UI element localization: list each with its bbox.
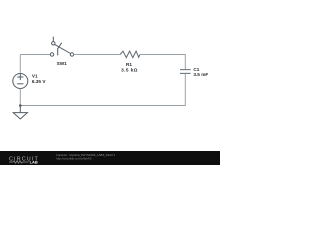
- resistor R1: [120, 51, 140, 58]
- CircuitLab logo: [9, 156, 39, 164]
- wire resistor to top-right corner: [140, 55, 185, 70]
- svg-text:R1: R1: [126, 62, 132, 67]
- svg-text:http://circuitlab.com/c/6ae42/: http://circuitlab.com/c/6ae42/: [56, 157, 92, 161]
- wire V1 bottom lead: [19, 89, 21, 106]
- watermark bar: [0, 151, 220, 165]
- wire V1 top lead: [19, 55, 21, 74]
- voltage source V1: [13, 74, 28, 89]
- svg-text:SW1: SW1: [57, 61, 68, 66]
- svg-text:3.5 kΩ: 3.5 kΩ: [121, 67, 138, 72]
- node junction: [19, 104, 22, 107]
- svg-text:3.5 mF: 3.5 mF: [193, 72, 208, 77]
- ground: [13, 106, 27, 120]
- svg-text:6.35 V: 6.35 V: [32, 79, 46, 84]
- wire bottom: [20, 74, 185, 106]
- wire switch to resistor: [74, 54, 121, 56]
- switch SW1: [50, 37, 73, 57]
- svg-text:LAB: LAB: [30, 159, 38, 164]
- wire top-left: [20, 54, 50, 56]
- capacitor C1: [180, 70, 191, 74]
